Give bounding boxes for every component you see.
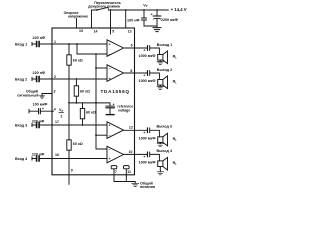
svg-text:1: 1 xyxy=(54,40,56,44)
svg-text:60 кΩ: 60 кΩ xyxy=(73,142,83,146)
svg-text:RL: RL xyxy=(173,137,178,142)
svg-text:220 нФ: 220 нФ xyxy=(32,153,45,157)
ground (speaker 4) xyxy=(157,172,163,175)
svg-text:100 нФ: 100 нФ xyxy=(127,18,140,22)
speaker RL2 xyxy=(158,80,163,86)
resistor R3 60k xyxy=(82,103,84,125)
svg-text:Вход 2: Вход 2 xyxy=(15,77,27,81)
svg-text:voltage: voltage xyxy=(118,109,130,113)
pin 5 stub (supply) xyxy=(110,10,112,34)
capacitor 1000uF out4 xyxy=(147,152,149,157)
svg-text:дежурного режима: дежурного режима xyxy=(88,5,120,9)
svg-text:1000 мкФ: 1000 мкФ xyxy=(139,136,157,140)
svg-text:11: 11 xyxy=(127,170,131,174)
svg-text:3: 3 xyxy=(54,89,56,93)
node bus amp2 xyxy=(95,67,97,69)
svg-text:+: + xyxy=(143,131,145,135)
node pin5 on rail xyxy=(110,9,112,11)
standby switch S1 xyxy=(97,7,108,10)
svg-text:VP: VP xyxy=(143,3,147,8)
ground (speaker 2) xyxy=(157,86,163,89)
svg-text:2: 2 xyxy=(54,75,56,79)
svg-text:1000 мкФ: 1000 мкФ xyxy=(139,161,157,165)
svg-text:RL: RL xyxy=(173,80,178,85)
internal reference battery xyxy=(106,105,114,107)
node bus amp3 xyxy=(95,134,97,136)
svg-text:−: − xyxy=(109,147,111,151)
ground (power) xyxy=(132,183,139,186)
node R1/R4 on Vp/2 rail xyxy=(68,102,70,104)
pin 4 stub inside xyxy=(52,110,54,112)
svg-text:1000 мкФ: 1000 мкФ xyxy=(139,54,157,58)
wire pin3 signal ground xyxy=(42,94,52,96)
svg-text:+: + xyxy=(143,155,145,159)
svg-text:Выход 2: Выход 2 xyxy=(157,68,172,72)
resistor R2 60k xyxy=(75,79,77,103)
node bus top xyxy=(95,53,97,55)
svg-text:15: 15 xyxy=(79,29,83,33)
svg-text:напряжение: напряжение xyxy=(68,14,88,18)
svg-text:5: 5 xyxy=(112,29,114,33)
svg-text:220 нФ: 220 нФ xyxy=(33,36,46,40)
node 2200uF on rail xyxy=(156,9,158,11)
wire output 4 xyxy=(124,154,160,161)
svg-text:13: 13 xyxy=(128,29,132,33)
ground (supply caps) xyxy=(153,28,161,32)
input capacitor C1 220nF xyxy=(32,43,52,46)
resistor R1 60k xyxy=(68,44,70,103)
svg-text:+: + xyxy=(109,77,111,81)
capacitor 2200uF (supply electrolytic) xyxy=(156,10,158,26)
pin 13 wire xyxy=(125,10,127,28)
ground (speaker 3) xyxy=(157,144,163,147)
wire amp1 inverting input branch xyxy=(77,44,107,54)
svg-text:12: 12 xyxy=(129,126,133,130)
svg-text:2: 2 xyxy=(60,114,62,118)
wire feedback bus vertical xyxy=(96,54,107,149)
svg-text:+: + xyxy=(42,107,44,111)
svg-text:10: 10 xyxy=(129,150,133,154)
svg-text:Вход 1: Вход 1 xyxy=(15,42,27,46)
wire joining caps to ground xyxy=(144,26,157,28)
switch right terminal xyxy=(108,8,110,10)
wire pin1 to amp xyxy=(52,43,107,45)
svg-text:220 нФ: 220 нФ xyxy=(32,120,45,124)
resistor R4 60k xyxy=(68,103,70,184)
node R1 top on pin1 wire xyxy=(68,43,70,45)
svg-text:60 кΩ: 60 кΩ xyxy=(73,58,83,62)
svg-text:RL: RL xyxy=(173,55,178,60)
svg-text:−: − xyxy=(109,52,111,56)
op-amp U1A xyxy=(107,40,124,57)
svg-text:TDA1556Q: TDA1556Q xyxy=(101,89,130,94)
svg-text:60 кΩ: 60 кΩ xyxy=(86,110,96,114)
svg-text:+ 14,4 V: + 14,4 V xyxy=(171,7,187,12)
svg-text:14: 14 xyxy=(94,29,98,33)
node 100nF on rail xyxy=(143,9,145,11)
capacitor 1000uF out3 xyxy=(147,128,149,133)
Vp/2 fraction bar xyxy=(59,112,64,114)
node R4 bottom on pin16 wire xyxy=(68,158,70,160)
node R2 bottom on Vp/2 rail xyxy=(76,102,78,104)
power ground tab pin11 xyxy=(124,166,130,169)
wire pin16 to amp xyxy=(52,158,107,160)
op-amp U1B xyxy=(107,65,124,82)
op-amp U1D xyxy=(107,146,124,163)
speaker RL1 xyxy=(158,55,163,61)
input capacitor C2 220nF xyxy=(32,78,52,81)
svg-text:−: − xyxy=(109,134,111,138)
svg-text:2200 мкФ: 2200 мкФ xyxy=(161,18,179,22)
node R3 bottom on pin17 wire xyxy=(82,124,84,126)
svg-text:+: + xyxy=(143,49,145,53)
svg-text:1000 мкФ: 1000 мкФ xyxy=(139,79,157,83)
svg-text:220 нФ: 220 нФ xyxy=(33,71,46,75)
wire pins 7/11 to ground xyxy=(114,169,135,184)
pin 15 stub (reference voltage) xyxy=(76,19,78,29)
node bus on Vp/2 rail xyxy=(95,102,97,104)
wire output 2 xyxy=(124,73,160,80)
node branch on pin1 wire xyxy=(76,43,78,45)
svg-text:17: 17 xyxy=(55,120,59,124)
svg-text:+: + xyxy=(109,123,111,127)
ground (speaker 1) xyxy=(157,61,163,64)
svg-text:сигнальный: сигнальный xyxy=(17,93,38,97)
svg-text:6: 6 xyxy=(131,44,133,48)
node R2 top on pin2 wire xyxy=(76,78,78,80)
svg-text:Вход 3: Вход 3 xyxy=(15,123,27,127)
op-amp IC body TDA1556Q xyxy=(52,28,135,175)
wire bus to amp3 input xyxy=(96,134,107,136)
svg-text:−: − xyxy=(109,66,111,70)
svg-text:+: + xyxy=(143,74,145,78)
svg-text:Вход 4: Вход 4 xyxy=(15,157,28,161)
ground (signal) xyxy=(39,96,44,98)
svg-text:+: + xyxy=(109,42,111,46)
speaker RL3 xyxy=(158,137,163,143)
svg-text:60 кΩ: 60 кΩ xyxy=(80,89,90,93)
svg-text:RL: RL xyxy=(173,161,178,166)
node switch pivot xyxy=(96,9,98,11)
svg-text:9: 9 xyxy=(71,169,73,173)
svg-text:+: + xyxy=(151,12,153,16)
svg-text:+: + xyxy=(109,157,111,161)
svg-text:7: 7 xyxy=(115,170,117,174)
svg-text:100 мкФ: 100 мкФ xyxy=(33,102,49,106)
power ground tab pin7 xyxy=(111,166,117,169)
capacitor 1000uF out1 xyxy=(147,46,149,51)
wire output 1 xyxy=(124,48,160,55)
svg-text:VP: VP xyxy=(59,108,63,113)
svg-text:16: 16 xyxy=(55,153,59,157)
wire Vp/2 rail xyxy=(69,103,110,106)
wire pin2 to amp xyxy=(52,78,107,80)
capacitor 1000uF out2 xyxy=(147,71,149,76)
capacitor 100nF (supply decoupling) xyxy=(143,10,145,26)
input capacitor C3 220nF xyxy=(32,124,52,127)
capacitor C5 100uF (pin4 ripple) xyxy=(29,110,52,113)
svg-text:8: 8 xyxy=(130,69,132,73)
op-amp U1C xyxy=(107,122,124,139)
speaker RL4 xyxy=(158,161,163,167)
svg-text:питания: питания xyxy=(140,185,155,189)
node pin13 on rail xyxy=(125,9,127,11)
wire output 3 xyxy=(124,130,160,137)
input capacitor C4 220nF xyxy=(32,157,52,160)
wire Vp rail xyxy=(92,10,169,28)
svg-text:Выход 3: Выход 3 xyxy=(157,125,172,129)
svg-text:Выход 1: Выход 1 xyxy=(157,43,172,47)
svg-text:+: + xyxy=(113,103,115,107)
wire bus to amp2 input xyxy=(96,67,107,69)
wire pin17 to amp xyxy=(52,124,107,126)
svg-text:Выход 4: Выход 4 xyxy=(157,149,173,153)
svg-text:4: 4 xyxy=(54,107,56,111)
